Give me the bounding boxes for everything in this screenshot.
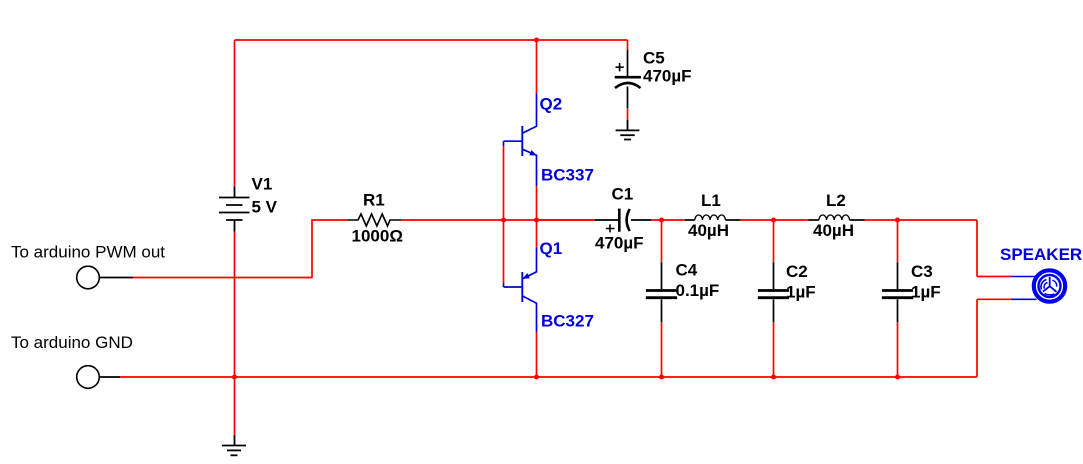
svg-text:1µF: 1µF [786, 282, 816, 301]
node Q2 collector at rail [534, 38, 539, 43]
node Q1 collector at bottom rail [534, 375, 539, 380]
wire Q2 emitter to junction [536, 186, 538, 220]
svg-text:BC337: BC337 [541, 166, 594, 185]
wire bottom rail [120, 376, 977, 378]
svg-text:470µF: 470µF [643, 67, 692, 86]
svg-text:Q1: Q1 [540, 239, 563, 258]
terminal circle GND [77, 366, 100, 389]
speaker pin top [1011, 276, 1035, 278]
svg-text:L1: L1 [701, 191, 721, 210]
wire C1 to node [651, 219, 685, 221]
svg-text:To arduino GND: To arduino GND [11, 333, 133, 352]
svg-text:5 V: 5 V [252, 198, 278, 217]
svg-text:0.1µF: 0.1µF [676, 281, 720, 300]
capacitor C4 [661, 220, 663, 262]
terminal circle PWM [77, 266, 100, 289]
wire Q1 collector to rail [536, 332, 538, 377]
node C2 top [771, 218, 776, 223]
wire PWM to R1 [133, 220, 348, 278]
wire C5 to ground [627, 108, 629, 120]
battery V1 [219, 186, 250, 232]
svg-text:SPEAKER: SPEAKER [1000, 245, 1082, 264]
inductor L2 [809, 215, 865, 220]
node C2 bottom [771, 375, 776, 380]
svg-text:470µF: 470µF [595, 234, 644, 253]
capacitor C5 [615, 50, 641, 108]
svg-text:R1: R1 [363, 190, 385, 209]
node bases junction [501, 218, 506, 223]
node C4 bottom [659, 375, 664, 380]
svg-text:C2: C2 [786, 262, 808, 281]
node C3 bottom [895, 375, 900, 380]
wire V1 top [234, 40, 236, 186]
wire L1 to node [741, 219, 809, 221]
svg-text:C3: C3 [911, 262, 933, 281]
svg-text:BC327: BC327 [541, 312, 594, 331]
wire to speaker bottom [977, 299, 1011, 377]
wire GND stub [99, 376, 120, 378]
node C4 top [659, 218, 664, 223]
svg-text:1µF: 1µF [911, 282, 941, 301]
svg-text:C4: C4 [676, 260, 698, 279]
wire bases vertical [503, 146, 505, 283]
wire Q2 collector [536, 40, 538, 94]
wire to speaker top [977, 220, 1011, 277]
node emitters junction [534, 218, 539, 223]
capacitor C2 [773, 220, 775, 262]
svg-text:40µH: 40µH [813, 221, 854, 240]
wire R1 to bases [401, 219, 595, 221]
capacitor C1 [595, 209, 651, 233]
ground under V1 [222, 435, 246, 455]
node V1 at bottom rail [232, 375, 237, 380]
speaker icon [1034, 270, 1065, 301]
svg-text:To arduino PWM out: To arduino PWM out [11, 243, 165, 262]
transistor Q1 [504, 248, 537, 333]
wire Q1 emitter from junction [536, 220, 538, 248]
speaker pin bottom [1011, 298, 1037, 300]
wire L2 to node [865, 219, 978, 221]
resistor R1 [348, 214, 402, 226]
wire top rail [235, 39, 628, 41]
wire V1 bottom [234, 232, 236, 435]
wire PWM stub [99, 277, 133, 279]
svg-text:C1: C1 [612, 185, 634, 204]
svg-text:Q2: Q2 [540, 95, 563, 114]
wire rail to C5 [627, 40, 629, 50]
svg-text:40µH: 40µH [688, 221, 729, 240]
wire emitters to C1 [537, 219, 595, 221]
svg-text:1000Ω: 1000Ω [352, 227, 403, 246]
transistor Q2 [504, 94, 537, 187]
svg-text:L2: L2 [826, 191, 846, 210]
svg-text:V1: V1 [252, 175, 273, 194]
capacitor C3 [897, 220, 899, 262]
node C3 top [895, 218, 900, 223]
inductor L1 [685, 215, 741, 220]
svg-text:C5: C5 [643, 49, 665, 68]
ground under C5 [616, 120, 640, 140]
